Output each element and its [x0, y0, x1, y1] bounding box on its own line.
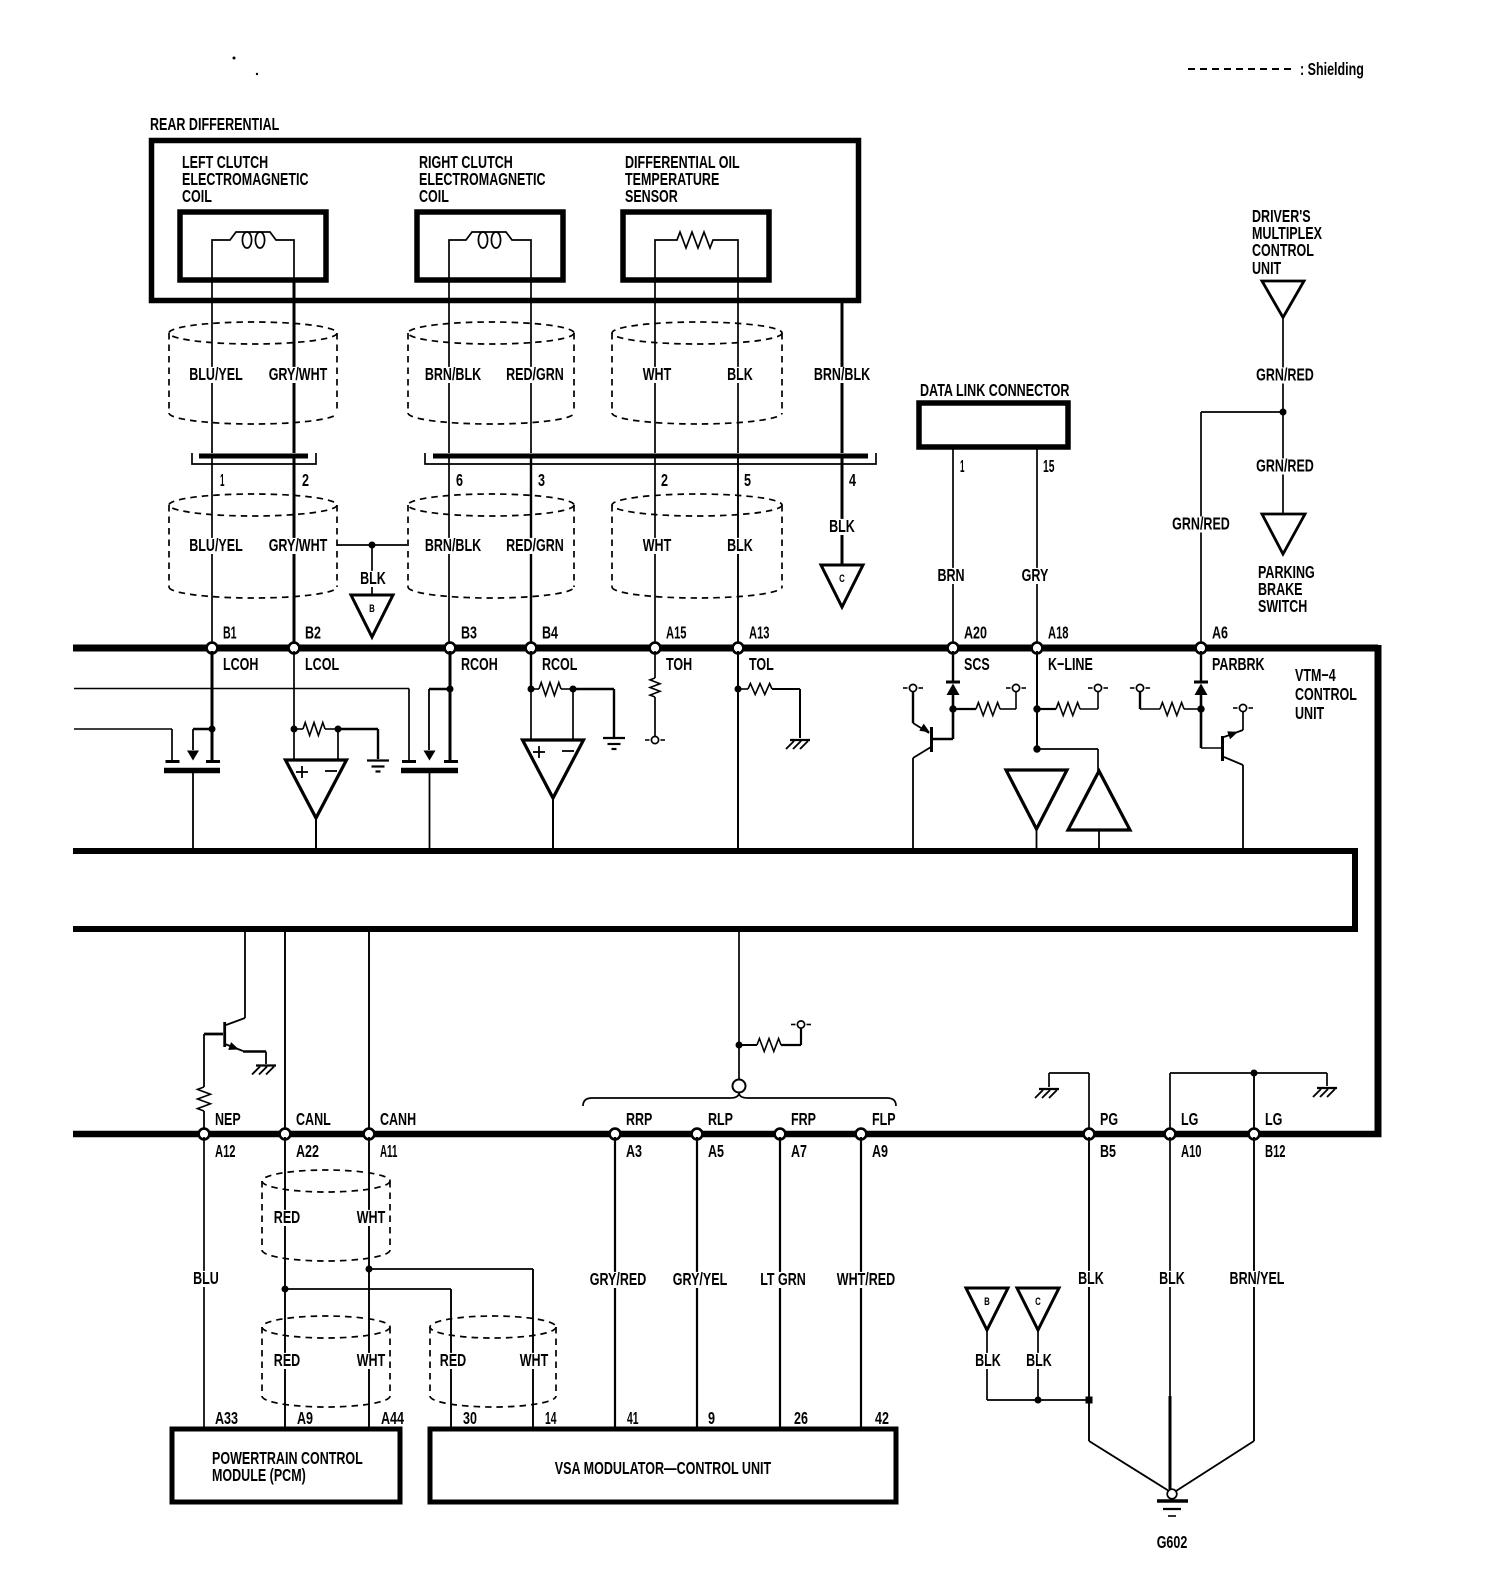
- svg-text:COIL: COIL: [182, 186, 212, 206]
- svg-text:A6: A6: [1212, 623, 1228, 643]
- svg-text:LT GRN: LT GRN: [760, 1269, 806, 1289]
- svg-text:BLK: BLK: [1026, 1350, 1052, 1370]
- svg-text:BRN/YEL: BRN/YEL: [1230, 1268, 1285, 1288]
- svg-text:RRP: RRP: [626, 1109, 653, 1129]
- svg-text:BLK: BLK: [829, 516, 855, 536]
- svg-text:WHT: WHT: [357, 1207, 386, 1227]
- svg-text:B5: B5: [1100, 1141, 1116, 1161]
- svg-text:RED/GRN: RED/GRN: [506, 364, 564, 384]
- svg-text:BLU/YEL: BLU/YEL: [189, 364, 243, 384]
- svg-text:UNIT: UNIT: [1252, 258, 1281, 278]
- svg-text:RLP: RLP: [708, 1109, 733, 1129]
- svg-text:RED: RED: [274, 1207, 300, 1227]
- svg-text:B: B: [369, 603, 375, 615]
- svg-text:5: 5: [744, 470, 751, 490]
- svg-text:A9: A9: [872, 1141, 888, 1161]
- svg-text:B: B: [984, 1296, 990, 1308]
- svg-text:2: 2: [661, 470, 668, 490]
- svg-text:15: 15: [1043, 456, 1055, 476]
- svg-text:B12: B12: [1265, 1141, 1286, 1161]
- svg-text:PG: PG: [1100, 1109, 1118, 1129]
- svg-text:PARBRK: PARBRK: [1212, 654, 1265, 674]
- svg-text:A5: A5: [708, 1141, 724, 1161]
- svg-text:RCOL: RCOL: [542, 654, 578, 674]
- svg-text:RCOH: RCOH: [461, 654, 498, 674]
- svg-text:RED/GRN: RED/GRN: [506, 535, 564, 555]
- svg-text:3: 3: [538, 470, 545, 490]
- svg-text:BLU: BLU: [193, 1268, 219, 1288]
- svg-text:A3: A3: [626, 1141, 642, 1161]
- svg-text:1: 1: [960, 456, 965, 476]
- svg-text:A18: A18: [1048, 623, 1069, 643]
- svg-text:A12: A12: [215, 1141, 236, 1161]
- svg-text:26: 26: [794, 1408, 808, 1428]
- svg-text:B2: B2: [305, 623, 321, 643]
- svg-text:FLP: FLP: [872, 1109, 896, 1129]
- svg-text:BLK: BLK: [727, 364, 753, 384]
- svg-text:BLK: BLK: [1078, 1268, 1104, 1288]
- svg-text:9: 9: [708, 1408, 715, 1428]
- svg-text:6: 6: [456, 470, 463, 490]
- svg-text:SWITCH: SWITCH: [1258, 596, 1307, 616]
- svg-text:GRN/RED: GRN/RED: [1256, 365, 1314, 385]
- svg-text:GRY/YEL: GRY/YEL: [673, 1269, 728, 1289]
- svg-text:A7: A7: [791, 1141, 807, 1161]
- svg-text:A22: A22: [296, 1141, 319, 1161]
- svg-text:41: 41: [627, 1408, 639, 1428]
- svg-text:GRY: GRY: [1022, 565, 1049, 585]
- svg-text:RED: RED: [274, 1350, 300, 1370]
- svg-text:WHT: WHT: [643, 364, 672, 384]
- svg-text:A44: A44: [381, 1408, 404, 1428]
- svg-text:42: 42: [875, 1408, 889, 1428]
- svg-text:FRP: FRP: [791, 1109, 816, 1129]
- svg-text:RED: RED: [440, 1350, 466, 1370]
- svg-text:A20: A20: [964, 623, 987, 643]
- svg-text:GRN/RED: GRN/RED: [1172, 514, 1230, 534]
- svg-text:BRN/BLK: BRN/BLK: [814, 364, 871, 384]
- svg-text:COIL: COIL: [419, 186, 449, 206]
- svg-text:C: C: [1035, 1296, 1041, 1308]
- svg-text:BLK: BLK: [360, 568, 386, 588]
- svg-text:TOH: TOH: [666, 654, 692, 674]
- svg-text:TOL: TOL: [749, 654, 774, 674]
- svg-text:SCS: SCS: [964, 654, 990, 674]
- svg-text:B1: B1: [223, 623, 237, 643]
- svg-text:: Shielding: : Shielding: [1300, 59, 1364, 79]
- svg-text:GRY/RED: GRY/RED: [590, 1269, 647, 1289]
- svg-text:WHT: WHT: [520, 1350, 549, 1370]
- svg-text:NEP: NEP: [215, 1109, 241, 1129]
- svg-text:30: 30: [463, 1408, 477, 1428]
- svg-text:A13: A13: [749, 623, 770, 643]
- svg-text:14: 14: [545, 1408, 557, 1428]
- svg-text:CANL: CANL: [296, 1109, 331, 1129]
- svg-text:WHT: WHT: [643, 535, 672, 555]
- svg-text:C: C: [839, 573, 845, 585]
- svg-text:LCOH: LCOH: [223, 654, 258, 674]
- svg-text:4: 4: [849, 470, 856, 490]
- svg-text:B4: B4: [542, 623, 558, 643]
- svg-text:REAR DIFFERENTIAL: REAR DIFFERENTIAL: [150, 114, 280, 134]
- svg-text:GRN/RED: GRN/RED: [1256, 456, 1314, 476]
- svg-text:MODULE (PCM): MODULE (PCM): [212, 1465, 306, 1485]
- svg-text:WHT: WHT: [357, 1350, 386, 1370]
- svg-text:GRY/WHT: GRY/WHT: [269, 364, 328, 384]
- svg-text:CONTROL: CONTROL: [1295, 684, 1357, 704]
- svg-text:BRN/BLK: BRN/BLK: [425, 364, 482, 384]
- svg-text:2: 2: [302, 470, 309, 490]
- svg-text:A33: A33: [215, 1408, 238, 1428]
- svg-text:K−LINE: K−LINE: [1048, 654, 1093, 674]
- svg-text:G602: G602: [1157, 1532, 1188, 1552]
- svg-text:A15: A15: [666, 623, 687, 643]
- svg-text:BRN/BLK: BRN/BLK: [425, 535, 482, 555]
- svg-text:BLU/YEL: BLU/YEL: [189, 535, 243, 555]
- svg-text:LG: LG: [1181, 1109, 1198, 1129]
- svg-text:LCOL: LCOL: [305, 654, 339, 674]
- svg-text:1: 1: [220, 470, 225, 490]
- svg-text:BLK: BLK: [1159, 1268, 1185, 1288]
- svg-text:A11: A11: [380, 1141, 398, 1161]
- svg-text:A10: A10: [1181, 1141, 1202, 1161]
- svg-text:CANH: CANH: [380, 1109, 416, 1129]
- svg-text:VTM−4: VTM−4: [1295, 665, 1336, 685]
- svg-text:BLK: BLK: [975, 1350, 1001, 1370]
- svg-text:VSA MODULATOR—CONTROL UNIT: VSA MODULATOR—CONTROL UNIT: [555, 1458, 772, 1478]
- svg-text:DATA LINK CONNECTOR: DATA LINK CONNECTOR: [920, 380, 1070, 400]
- svg-text:GRY/WHT: GRY/WHT: [269, 535, 328, 555]
- svg-text:LG: LG: [1265, 1109, 1282, 1129]
- svg-text:BRN: BRN: [937, 565, 964, 585]
- svg-text:CONTROL: CONTROL: [1252, 240, 1314, 260]
- svg-text:B3: B3: [461, 623, 477, 643]
- svg-text:WHT/RED: WHT/RED: [837, 1269, 895, 1289]
- svg-text:A9: A9: [297, 1408, 313, 1428]
- svg-text:SENSOR: SENSOR: [625, 186, 678, 206]
- svg-text:BLK: BLK: [727, 535, 753, 555]
- svg-text:UNIT: UNIT: [1295, 703, 1324, 723]
